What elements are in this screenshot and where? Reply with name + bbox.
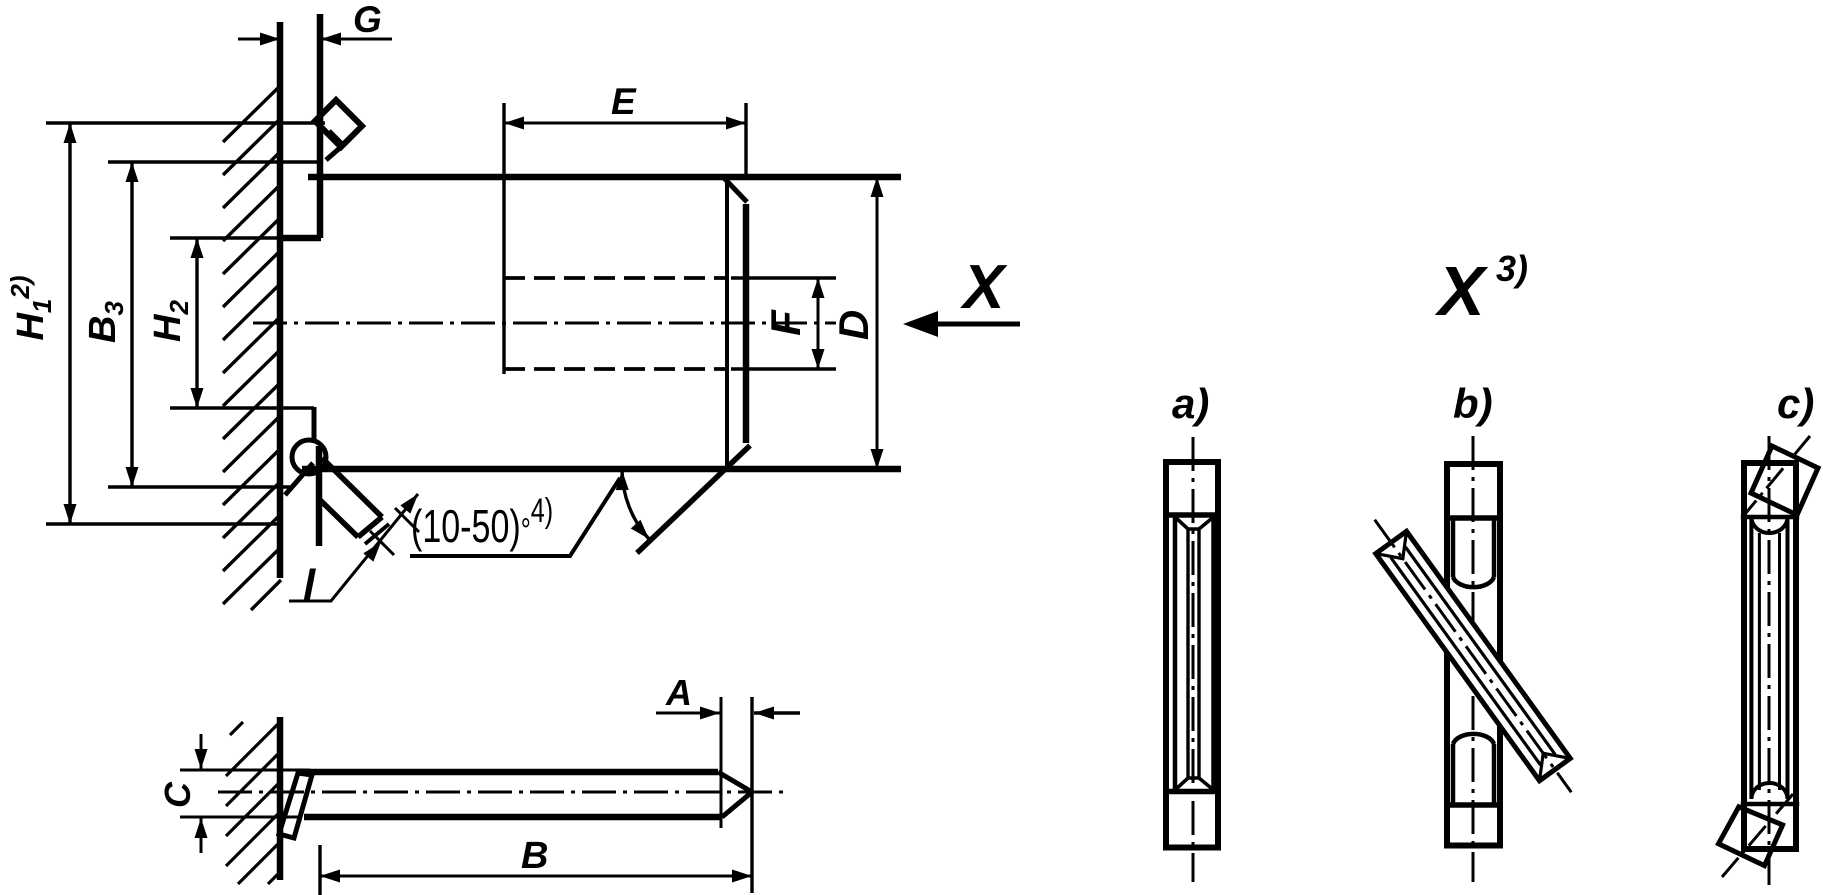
svg-text:X: X (960, 253, 1008, 322)
svg-text:D: D (830, 310, 877, 340)
svg-text:G: G (353, 0, 382, 40)
svg-text:B: B (521, 835, 548, 877)
svg-text:X: X (1434, 252, 1489, 330)
svg-text:3): 3) (1496, 248, 1528, 289)
svg-text:c): c) (1777, 380, 1814, 427)
svg-text:A: A (665, 672, 692, 713)
svg-text:l: l (303, 561, 316, 610)
svg-text:E: E (611, 81, 637, 122)
svg-text:C: C (157, 781, 198, 808)
svg-text:a): a) (1172, 380, 1209, 427)
svg-text:b): b) (1453, 380, 1493, 427)
